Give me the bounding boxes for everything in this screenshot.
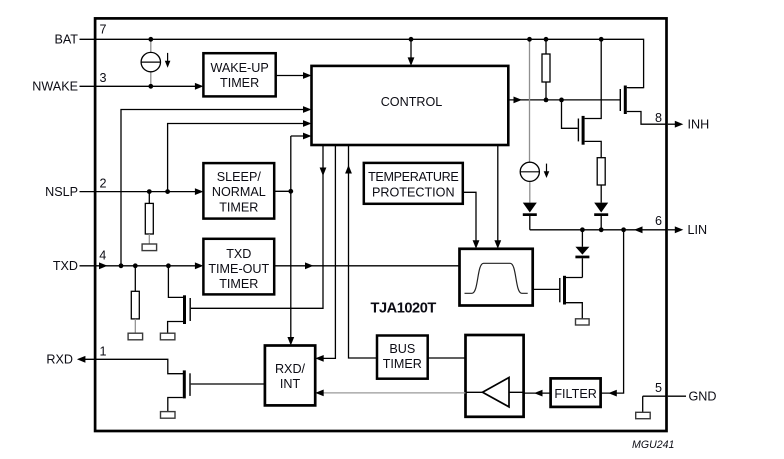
wire NSLP net to control (x=167.6 riser) — [168, 124, 310, 192]
wire NWAKE (pin 3 net) — [80, 85, 202, 87]
svg-text:TIMER: TIMER — [219, 200, 258, 214]
control block — [312, 66, 509, 145]
wire control to RXD/INT right (x=335.4 riser) — [317, 146, 335, 358]
transistor Q3 (second driver) — [582, 116, 585, 145]
svg-text:TJA1020T: TJA1020T — [371, 301, 437, 317]
svg-text:SLEEP/: SLEEP/ — [217, 170, 262, 184]
junction dot BAT/I1 — [148, 37, 153, 42]
resistor R4 (Q3 source) — [597, 158, 605, 185]
wire LIN (pin 6 net) — [530, 229, 666, 231]
svg-text:GND: GND — [689, 390, 717, 404]
bus timer block — [377, 336, 428, 379]
wire TXD (pin 4 net) — [80, 265, 202, 267]
svg-text:TIMER: TIMER — [219, 277, 258, 291]
svg-text:LIN: LIN — [688, 223, 708, 237]
current direction arrow for I1 — [167, 53, 169, 62]
wire control output — [508, 99, 620, 101]
junction dot NWAKE/I1 — [148, 84, 153, 89]
filter block — [551, 378, 601, 407]
wire Q1 gate to control — [191, 146, 323, 308]
wire temp protection to slope block — [463, 192, 476, 246]
svg-text:2: 2 — [100, 176, 107, 190]
diode D1 — [523, 203, 537, 213]
comparator block — [466, 335, 524, 417]
ground (TXD resistor) — [128, 333, 143, 340]
txd time-out timer block — [203, 239, 274, 295]
svg-text:BUS: BUS — [389, 342, 415, 356]
diode D2 — [594, 203, 608, 213]
resistor R2 (TXD pull) — [134, 266, 136, 292]
svg-text:PROTECTION: PROTECTION — [372, 186, 455, 200]
svg-text:NWAKE: NWAKE — [32, 80, 78, 94]
current source I2 wire (gray) — [529, 39, 531, 202]
transistor Q5 (RXD output) — [183, 370, 186, 398]
temperature protection block — [364, 163, 463, 204]
current source I1 wire (gray) — [150, 39, 152, 86]
svg-text:TXD: TXD — [53, 259, 78, 273]
svg-text:1: 1 — [100, 345, 107, 359]
svg-text:TIMER: TIMER — [220, 76, 259, 90]
arrow into WAKE-UP TIMER — [195, 83, 204, 90]
comparator triangle — [466, 391, 524, 393]
ground (Q1 source) — [160, 333, 175, 340]
svg-text:TIME-OUT: TIME-OUT — [208, 262, 269, 276]
sleep/normal timer block — [203, 163, 274, 219]
current source I1 — [141, 52, 160, 71]
wire LIN to filter — [601, 230, 624, 393]
ground (Q5 source) — [161, 412, 176, 419]
svg-text:TIMER: TIMER — [383, 357, 422, 371]
slope waveform — [465, 263, 528, 293]
svg-text:TEMPERATURE: TEMPERATURE — [368, 170, 458, 184]
wire filter to comparator — [524, 392, 551, 394]
svg-text:TXD: TXD — [226, 247, 251, 261]
svg-text:INH: INH — [688, 118, 710, 132]
wake-up timer block — [203, 53, 275, 96]
svg-text:INT: INT — [280, 377, 301, 391]
svg-text:4: 4 — [99, 249, 106, 263]
svg-text:RXD/: RXD/ — [275, 362, 306, 376]
rxd/int block — [265, 346, 315, 406]
wire comparator to RXD/INT (gray) — [322, 392, 466, 394]
wire RXD (pin 1 net) and transistor Q5 — [79, 359, 184, 373]
slope control block — [460, 249, 533, 306]
svg-text:WAKE-UP: WAKE-UP — [210, 61, 268, 75]
ground (NSLP resistor) — [142, 244, 157, 251]
pin 5 GND — [643, 395, 686, 397]
current source I2 — [520, 162, 539, 181]
svg-text:3: 3 — [100, 71, 107, 85]
wire NSLP (pin 2 net) — [80, 191, 202, 193]
svg-text:7: 7 — [100, 23, 107, 37]
svg-text:RXD: RXD — [46, 353, 73, 367]
resistor R1 (NSLP pull) — [148, 192, 150, 204]
svg-text:6: 6 — [655, 214, 662, 228]
wire sleep timer output to control (x=290.8 riser) and down to RXD/INT — [274, 136, 309, 343]
ground (Q4 source) — [576, 319, 590, 325]
wire TXD net to control (x=121 riser) — [121, 110, 310, 266]
transistor Q2 (INH driver) — [624, 86, 627, 115]
wire wake-up timer to control — [276, 75, 310, 77]
svg-text:FILTER: FILTER — [554, 387, 596, 401]
svg-text:8: 8 — [655, 111, 662, 125]
svg-text:NORMAL: NORMAL — [212, 185, 266, 199]
ground (pin 5) — [642, 396, 644, 412]
diode D3 (LIN to Q4 drain) — [581, 230, 583, 247]
wire BAT horizontal (pin 7 net) — [80, 39, 644, 87]
wire BAT to control top — [410, 39, 412, 64]
wire control to slope block — [497, 146, 499, 247]
wire txd time-out timer to slope block — [274, 265, 459, 267]
wire bus timer to control (x=348.5 riser) — [349, 146, 378, 358]
current direction arrow for I2 — [546, 164, 548, 173]
svg-text:BAT: BAT — [54, 33, 78, 47]
wire bus timer to comparator — [428, 357, 466, 359]
resistor R3 (BAT to control output node) — [545, 39, 547, 54]
svg-text:MGU241: MGU241 — [632, 439, 674, 451]
svg-text:5: 5 — [655, 381, 662, 395]
transistor Q1 (TXD input stage) — [168, 266, 183, 298]
svg-text:NSLP: NSLP — [45, 185, 78, 199]
transistor Q4 (LIN driver) — [563, 276, 566, 305]
outer IC boundary box — [95, 18, 666, 431]
svg-text:CONTROL: CONTROL — [381, 95, 443, 109]
